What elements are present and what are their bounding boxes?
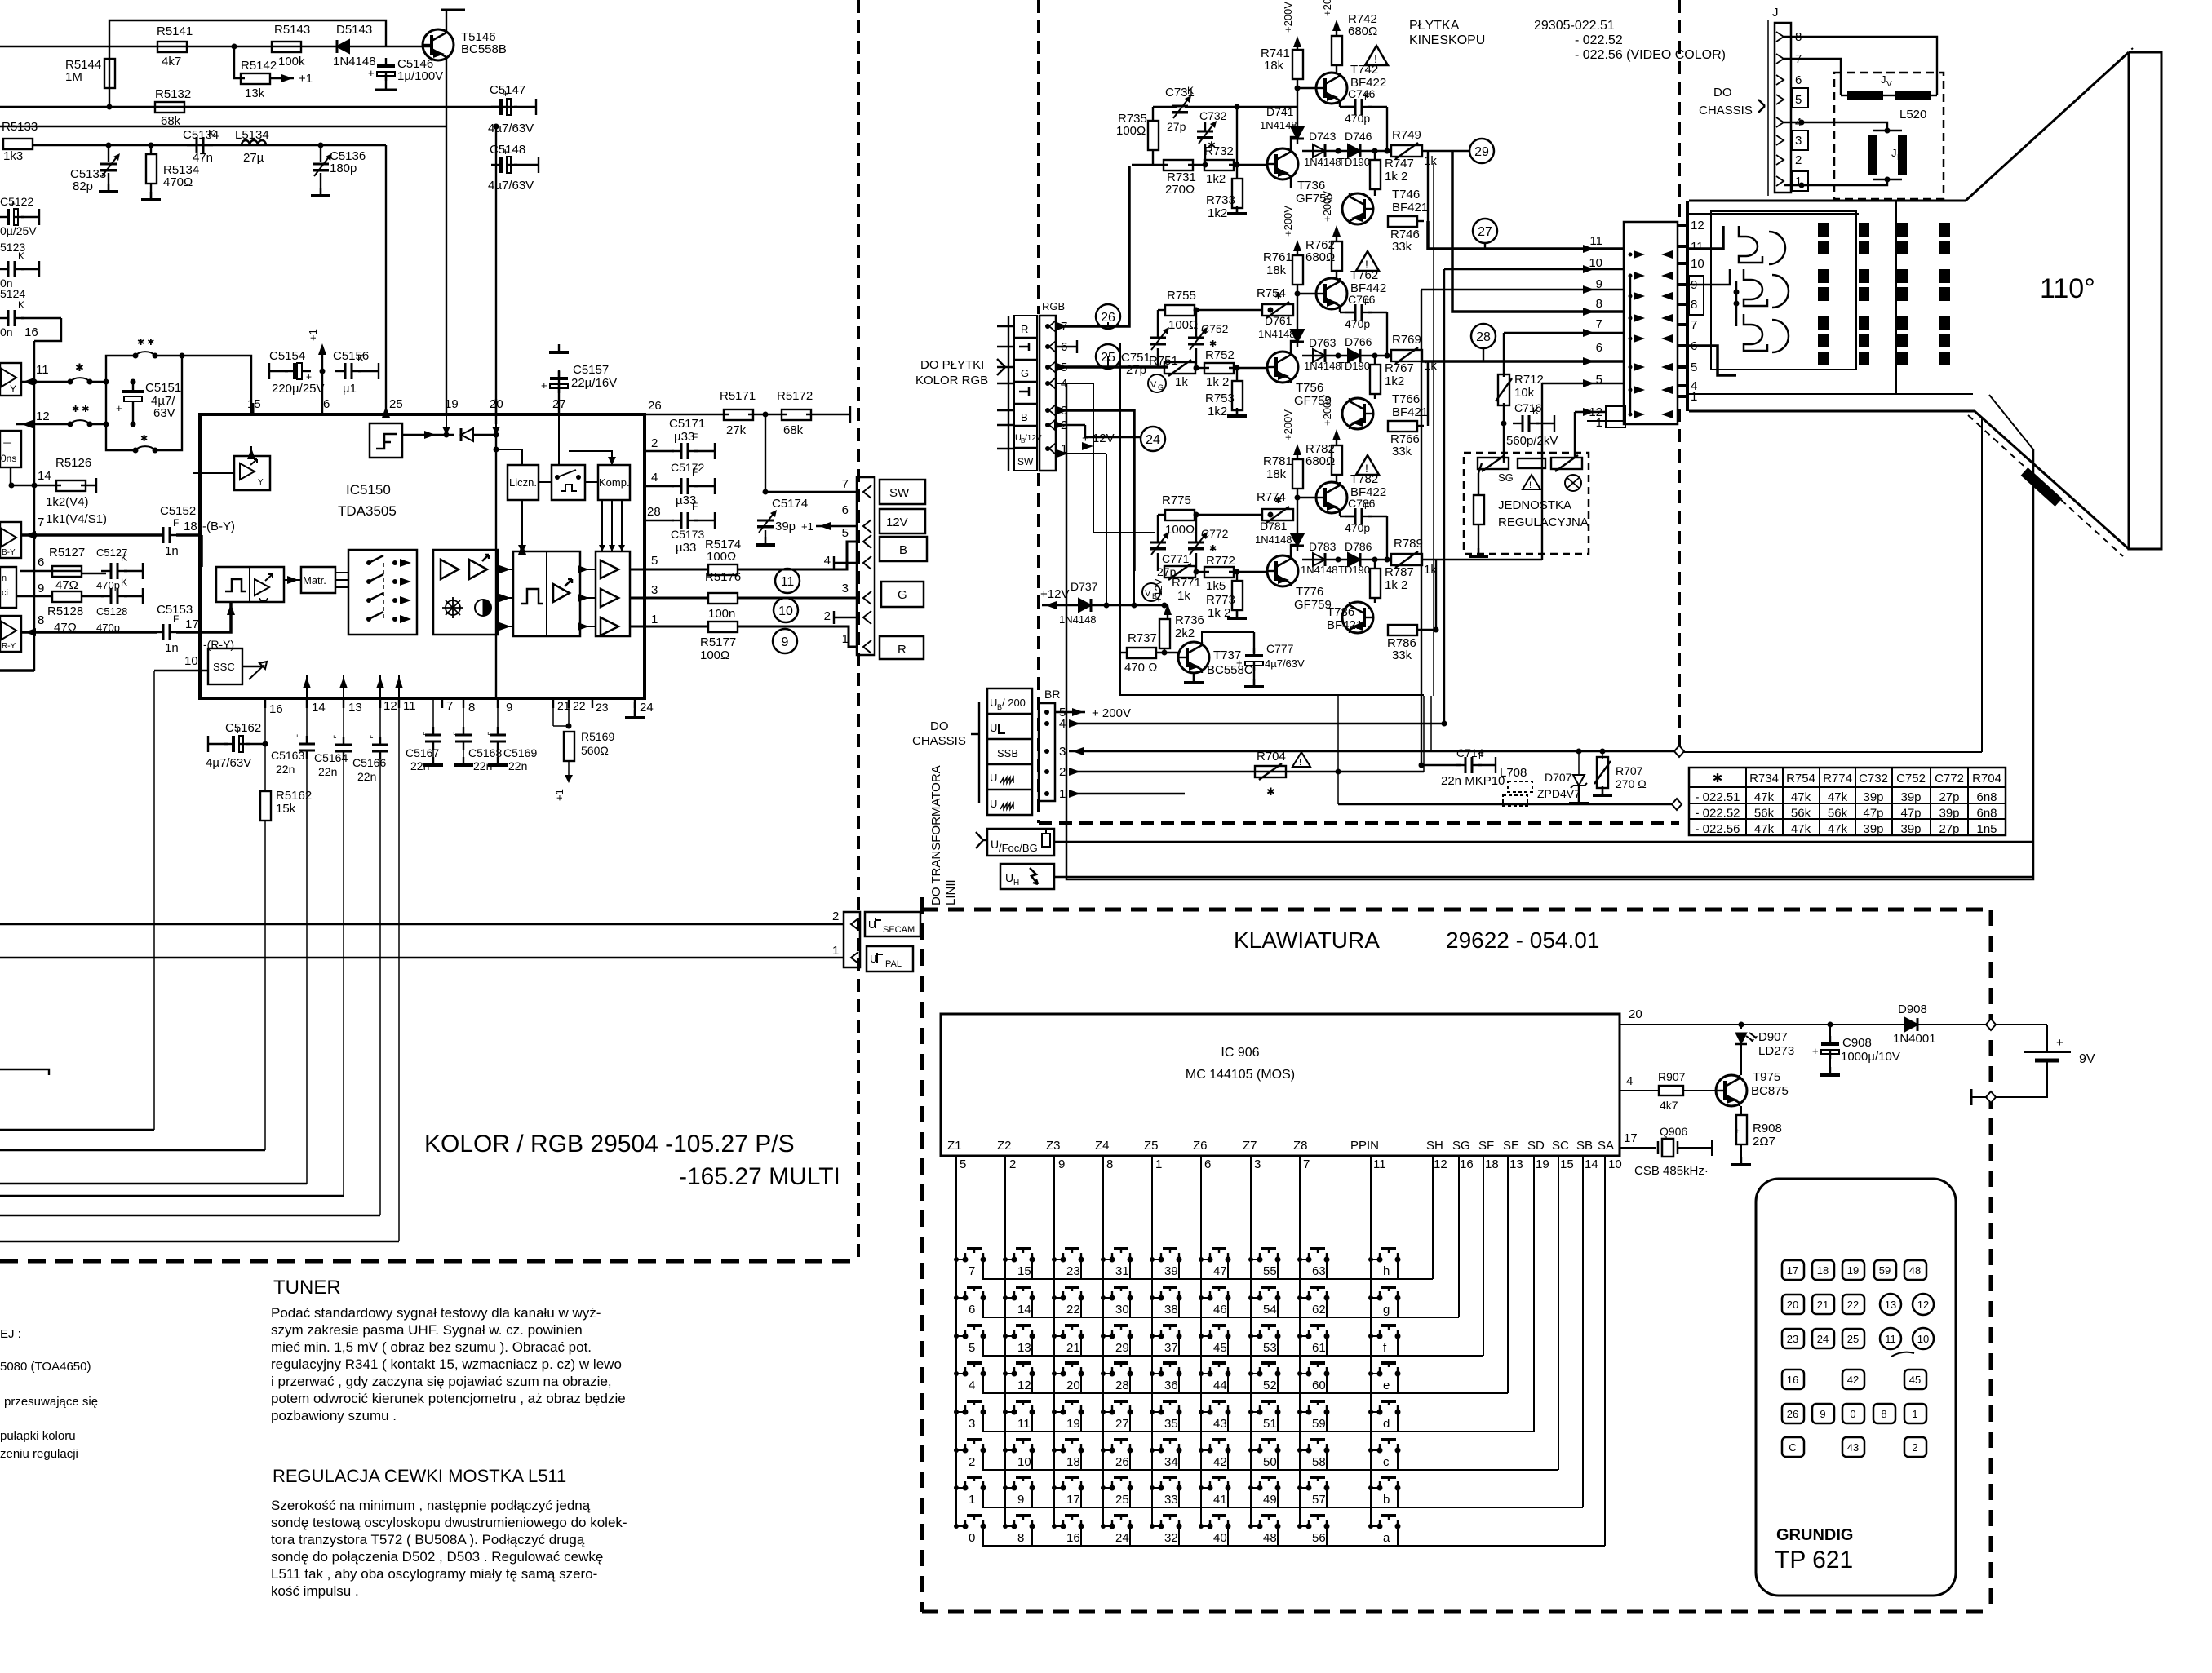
- remote squiggle: [1891, 1352, 1914, 1357]
- svg-text:+ 200V: + 200V: [1092, 706, 1131, 720]
- svg-text:44: 44: [1213, 1379, 1227, 1392]
- switch key h: [1377, 1257, 1383, 1263]
- switch key 7: [963, 1257, 969, 1263]
- resistor R5141: [157, 42, 187, 52]
- svg-text:LINII: LINII: [944, 879, 958, 905]
- svg-text:19: 19: [1066, 1417, 1080, 1431]
- svg-text:1N4148: 1N4148: [1260, 119, 1297, 131]
- wire BR2: [1069, 771, 1424, 772]
- switch key 46: [1208, 1295, 1213, 1301]
- svg-text:22n: 22n: [410, 759, 429, 772]
- capacitor C5168: [463, 698, 464, 732]
- switch key 51: [1257, 1410, 1263, 1415]
- capacitor C908: [1828, 1022, 1833, 1028]
- switch key 56: [1306, 1524, 1312, 1529]
- wire blue channel links: [1133, 571, 1135, 605]
- PPIN column wire: [1370, 1156, 1372, 1527]
- capacitor C5133 trimmer: [108, 145, 109, 162]
- svg-text:680Ω: 680Ω: [1305, 454, 1335, 468]
- svg-text:L708: L708: [1500, 766, 1527, 780]
- svg-text:⌞: ⌞: [423, 728, 427, 737]
- svg-text:Z8: Z8: [1293, 1139, 1308, 1153]
- svg-text:U: U: [991, 838, 999, 851]
- svg-text:D746: D746: [1345, 130, 1372, 143]
- switch key 63: [1306, 1257, 1312, 1263]
- svg-text:SC: SC: [1552, 1139, 1569, 1153]
- svg-text:30: 30: [1115, 1303, 1129, 1317]
- switch key 20: [1061, 1371, 1066, 1377]
- svg-text:+12V: +12V: [1040, 587, 1069, 601]
- svg-text:10: 10: [1589, 256, 1602, 270]
- svg-text:R752: R752: [1205, 348, 1235, 362]
- wire pin1 stub: [1056, 453, 1106, 454]
- svg-text:8: 8: [468, 701, 475, 715]
- wire pin19 stub down: [446, 414, 447, 435]
- warning triangle red: [1365, 46, 1388, 65]
- switch key 34: [1159, 1448, 1164, 1454]
- svg-text:1k5: 1k5: [1206, 579, 1226, 593]
- svg-text:J: J: [1772, 6, 1779, 20]
- resistor R5127: [52, 566, 82, 577]
- svg-text:20: 20: [1066, 1379, 1080, 1392]
- svg-text:T782: T782: [1350, 472, 1378, 486]
- svg-text:2: 2: [969, 1455, 975, 1469]
- svg-text:100Ω: 100Ω: [1168, 318, 1198, 332]
- svg-text:6: 6: [969, 1303, 975, 1317]
- svg-text:EJ :: EJ :: [0, 1327, 21, 1341]
- remote key 45: [1904, 1370, 1926, 1389]
- svg-text:R774: R774: [1823, 772, 1852, 786]
- block Liczn: [508, 465, 539, 500]
- diode D783: [1313, 553, 1325, 566]
- wire lower switch path: [106, 424, 135, 450]
- wire Liczn link1: [539, 481, 552, 483]
- svg-text:Liczn.: Liczn.: [509, 476, 537, 489]
- CRT funnel neck top: [1689, 200, 1966, 202]
- wire blue base: [1196, 571, 1209, 573]
- switch key 24: [1110, 1524, 1115, 1529]
- capacitor C5151: [105, 382, 107, 424]
- svg-text:43: 43: [1847, 1441, 1859, 1454]
- svg-text:12: 12: [1017, 1379, 1031, 1392]
- svg-text:54: 54: [1263, 1303, 1277, 1317]
- svg-text:47: 47: [1213, 1264, 1227, 1278]
- svg-text:12: 12: [36, 409, 50, 423]
- svg-text:D783: D783: [1309, 540, 1337, 553]
- wire red collector net: [1386, 107, 1388, 151]
- svg-text:11: 11: [403, 699, 416, 713]
- svg-text:2: 2: [651, 436, 658, 450]
- svg-text:1N4148: 1N4148: [1304, 156, 1341, 168]
- wire bus pin8 thick: [1452, 151, 1624, 312]
- switch key 31: [1110, 1257, 1115, 1263]
- capacitor C732 star: [1204, 122, 1206, 131]
- LED D907: [1740, 1025, 1742, 1029]
- svg-text:28: 28: [647, 505, 661, 519]
- label box B: [880, 537, 927, 561]
- resistor R755: [1165, 305, 1195, 316]
- CRT funnel top diagonal: [1966, 52, 2129, 201]
- svg-text:+: +: [2056, 1036, 2063, 1050]
- wire pin11 down: [398, 698, 400, 1241]
- svg-text:16: 16: [1460, 1157, 1474, 1171]
- remote key 11 round: [1880, 1328, 1901, 1349]
- svg-text:8: 8: [1106, 1157, 1113, 1171]
- svg-text:1k2: 1k2: [1206, 172, 1226, 186]
- wire bus pin1 crt: [1587, 420, 1624, 422]
- JEDNOSTKA dashed box: [1464, 453, 1589, 554]
- remote key 13 round: [1880, 1294, 1901, 1315]
- svg-text:5: 5: [1596, 373, 1602, 387]
- svg-text:1N4148: 1N4148: [1258, 328, 1296, 340]
- remote key 22: [1842, 1295, 1864, 1314]
- svg-text:1N4148: 1N4148: [1304, 360, 1341, 372]
- wire upper to pin15: [182, 356, 251, 414]
- svg-text:3: 3: [651, 583, 658, 597]
- svg-text:21: 21: [1066, 1341, 1080, 1355]
- svg-text:sondę do połączenia D50: sondę do połączenia D502 , D503 . Regulo…: [271, 1549, 603, 1565]
- svg-text:13: 13: [1885, 1299, 1896, 1311]
- yoke inner vertical: [1895, 201, 1897, 394]
- svg-text:C5169: C5169: [503, 746, 537, 759]
- switch key 48: [1257, 1524, 1263, 1529]
- svg-text:22n: 22n: [276, 763, 295, 776]
- svg-text:D763: D763: [1309, 336, 1337, 349]
- svg-text:SSC: SSC: [213, 661, 235, 673]
- resistor R769 fusible: [1391, 350, 1422, 361]
- diamond d908 crossing: [1986, 1019, 1996, 1030]
- svg-text:G: G: [1021, 367, 1029, 379]
- block pulse amp b5: [513, 551, 580, 636]
- resistor R707: [1602, 751, 1603, 759]
- svg-text:4: 4: [824, 554, 831, 568]
- resistor R5172: [782, 409, 811, 420]
- svg-text:SSB: SSB: [997, 747, 1018, 759]
- resistor R704: [1255, 766, 1286, 777]
- svg-text:18: 18: [1817, 1264, 1829, 1277]
- svg-text:zeniu regulacji: zeniu regulacji: [0, 1447, 78, 1461]
- svg-text:11: 11: [1589, 234, 1602, 248]
- svg-text:38: 38: [1164, 1303, 1178, 1317]
- svg-text:50: 50: [1263, 1455, 1277, 1469]
- svg-text:110°: 110°: [2040, 273, 2095, 304]
- svg-text:47k: 47k: [1791, 822, 1811, 836]
- svg-text:C752: C752: [1201, 322, 1229, 335]
- svg-text:8: 8: [1596, 297, 1602, 311]
- svg-text:✱ ✱: ✱ ✱: [72, 405, 90, 414]
- svg-text:TD190: TD190: [1338, 156, 1370, 168]
- capacitor C5128: [101, 595, 111, 597]
- svg-text:R5133: R5133: [2, 120, 38, 134]
- resistor R5174: [708, 564, 738, 575]
- dashed border klawiatura: [922, 908, 1991, 912]
- wire pin25 from C5136: [385, 412, 387, 414]
- svg-text:⌞: ⌞: [296, 730, 300, 739]
- label box UH lightning: [1000, 864, 1054, 889]
- capacitor C5156: [335, 370, 345, 372]
- svg-text:680Ω: 680Ω: [1348, 24, 1377, 38]
- svg-text:R5128: R5128: [47, 604, 83, 618]
- wire R737 left vert: [1120, 652, 1127, 653]
- svg-text:mieć min. 1,5 mV ( obraz: mieć min. 1,5 mV ( obraz bez szumu ). Ob…: [271, 1339, 592, 1355]
- svg-text:32: 32: [1164, 1531, 1178, 1545]
- svg-text:48: 48: [1909, 1264, 1921, 1277]
- remote key 17: [1782, 1260, 1804, 1280]
- wire block pin16: [34, 318, 61, 341]
- svg-text:sondę testową oscyloskopu: sondę testową oscyloskopu dwustrumieniow…: [271, 1515, 627, 1530]
- wire blue collector net: [1386, 516, 1388, 560]
- svg-text:D907: D907: [1758, 1030, 1788, 1044]
- svg-text:61: 61: [1312, 1341, 1326, 1355]
- circle VB: [1142, 583, 1160, 601]
- arrow +200V red: [1293, 36, 1301, 47]
- svg-text:4: 4: [1626, 1074, 1633, 1088]
- svg-text:4: 4: [651, 471, 658, 485]
- switch key 6: [963, 1295, 969, 1301]
- wire green long out thick: [1422, 360, 1624, 363]
- remote key 9: [1812, 1404, 1834, 1423]
- svg-text:G: G: [1158, 383, 1164, 392]
- svg-text:5080 (TOA4650): 5080 (TOA4650): [0, 1360, 91, 1374]
- svg-text:18k: 18k: [1266, 263, 1287, 277]
- switch key 58: [1306, 1448, 1312, 1454]
- svg-text:pozbawiony szumu .: pozbawiony szumu .: [271, 1408, 397, 1423]
- capacitor C5157: [558, 371, 560, 414]
- svg-text:15: 15: [1560, 1157, 1574, 1171]
- svg-text:1k2: 1k2: [1208, 405, 1227, 418]
- switch key 55: [1257, 1257, 1263, 1263]
- svg-text:D766: D766: [1345, 335, 1372, 348]
- svg-text:F: F: [692, 501, 698, 512]
- svg-text:BF421: BF421: [1327, 618, 1363, 632]
- svg-text:24: 24: [1817, 1333, 1829, 1345]
- wire pin27 to switch: [558, 414, 560, 465]
- wire pin16 down: [264, 702, 266, 791]
- block pulse matrix b1: [216, 567, 284, 602]
- svg-text:T776: T776: [1296, 585, 1323, 599]
- potentiometer mid: [1518, 458, 1545, 468]
- svg-text:1N4001: 1N4001: [1893, 1032, 1936, 1046]
- resistor R736: [1159, 619, 1170, 648]
- wire x247 down to b1: [200, 535, 203, 567]
- svg-text:U: U: [870, 953, 877, 965]
- svg-text:12: 12: [1434, 1157, 1447, 1171]
- svg-text:R753: R753: [1205, 392, 1235, 405]
- svg-text:K: K: [18, 250, 24, 262]
- switch key 12: [1012, 1371, 1017, 1377]
- svg-text:R704: R704: [1972, 772, 2001, 786]
- switch key 1: [963, 1485, 969, 1491]
- svg-text:+200V: +200V: [1321, 395, 1333, 426]
- remote key 10 round: [1913, 1328, 1934, 1349]
- svg-text:DO TRANSFORMATORA: DO TRANSFORMATORA: [929, 765, 943, 905]
- resistor R908: [1740, 1106, 1742, 1116]
- diamond crossing y986: [1672, 799, 1682, 810]
- connector BR strip: [1039, 703, 1055, 801]
- svg-text:12: 12: [383, 699, 397, 713]
- svg-text:R769: R769: [1392, 333, 1421, 347]
- svg-text:36: 36: [1164, 1379, 1178, 1392]
- svg-text:R907: R907: [1658, 1070, 1686, 1083]
- svg-text:8: 8: [1881, 1408, 1886, 1420]
- svg-text:11: 11: [1885, 1333, 1896, 1345]
- svg-text:1N4148: 1N4148: [1301, 564, 1338, 576]
- wire green base: [1196, 367, 1209, 369]
- dashed border KOLOR RGB bottom: [0, 1259, 858, 1264]
- svg-text:470p: 470p: [1345, 521, 1370, 534]
- svg-text:R: R: [1021, 323, 1028, 335]
- switch key 30: [1110, 1295, 1115, 1301]
- capacitor C5174 trimmer: [757, 525, 774, 527]
- switch key 61: [1306, 1334, 1312, 1339]
- svg-text:7: 7: [1691, 318, 1697, 332]
- svg-text:+1: +1: [307, 329, 319, 341]
- svg-text:3: 3: [1254, 1157, 1261, 1171]
- svg-text:4k7: 4k7: [1660, 1099, 1678, 1112]
- remote key 42: [1842, 1370, 1864, 1389]
- svg-text:45: 45: [1909, 1374, 1921, 1386]
- resistor R773: [1232, 581, 1243, 610]
- CRT funnel bottom diagonal: [1975, 411, 2129, 549]
- svg-text:63: 63: [1312, 1264, 1326, 1278]
- battery ground bar: [1970, 1089, 1973, 1105]
- svg-text:37: 37: [1164, 1341, 1178, 1355]
- wire bus pin7: [1504, 332, 1624, 334]
- wire pin2 +12V: [1056, 424, 1085, 426]
- svg-text:G: G: [898, 588, 907, 602]
- svg-text:51: 51: [1263, 1417, 1277, 1431]
- wire Komp top: [569, 451, 612, 465]
- block SSC: [208, 648, 242, 684]
- svg-text:ci: ci: [2, 588, 8, 598]
- svg-text:SF: SF: [1478, 1139, 1494, 1153]
- capacitor C714: [1456, 764, 1465, 766]
- switch key 18: [1061, 1448, 1066, 1454]
- IC906 box: [941, 1014, 1620, 1156]
- svg-text:B: B: [1021, 411, 1028, 423]
- remote key 8: [1873, 1404, 1895, 1423]
- capacitor C771 trimmer: [1150, 547, 1166, 549]
- svg-text:+200V: +200V: [1282, 2, 1294, 33]
- svg-text:R732: R732: [1204, 144, 1234, 158]
- svg-text:-165.27 MULTI: -165.27 MULTI: [679, 1163, 840, 1190]
- svg-text:49: 49: [1263, 1493, 1277, 1507]
- diode D746: [1348, 144, 1360, 157]
- svg-text:D781: D781: [1260, 520, 1288, 533]
- svg-text:/12V: /12V: [1025, 434, 1042, 443]
- svg-text:2: 2: [832, 910, 839, 923]
- svg-text:56: 56: [1312, 1531, 1326, 1545]
- svg-text:4: 4: [1059, 717, 1066, 731]
- svg-text:T786: T786: [1327, 605, 1354, 619]
- capacitor C746: [1339, 103, 1341, 107]
- wire nested L6: [0, 1241, 399, 1242]
- resistor R751 var: [1164, 362, 1195, 374]
- svg-text:C5154: C5154: [269, 349, 305, 363]
- wire green collector net: [1386, 312, 1388, 356]
- wire left leads rgb connector: [1008, 316, 1009, 471]
- svg-text:42: 42: [1847, 1374, 1859, 1386]
- block ci: [0, 567, 16, 608]
- svg-text:7: 7: [1596, 317, 1602, 331]
- mating connector vert link: [1629, 276, 1631, 414]
- resistor R5177: [708, 622, 738, 632]
- transistor T782: [1316, 482, 1347, 513]
- switch key 13: [1012, 1334, 1017, 1339]
- svg-text:13: 13: [1017, 1341, 1031, 1355]
- svg-text:R5143: R5143: [274, 23, 310, 37]
- svg-text:+ 12V: + 12V: [1082, 432, 1115, 445]
- svg-text:60: 60: [1312, 1379, 1326, 1392]
- amp block B-Y: [0, 522, 21, 558]
- svg-text:5124: 5124: [0, 287, 25, 300]
- svg-text:T756: T756: [1296, 381, 1323, 395]
- svg-text:26: 26: [648, 399, 662, 413]
- arrow +1 from R5142: [270, 77, 294, 79]
- svg-text:C777: C777: [1266, 642, 1294, 655]
- electron gun 1: [1739, 226, 1785, 264]
- capacitor C5147: [491, 106, 501, 108]
- wire Liczn top: [496, 449, 522, 465]
- svg-text:29: 29: [1474, 145, 1489, 159]
- wire R712 to SG: [1503, 423, 1505, 457]
- svg-text:DO: DO: [1713, 86, 1732, 100]
- wire green channel input: [1056, 365, 1168, 369]
- svg-text:22: 22: [1066, 1303, 1080, 1317]
- svg-text:47Ω: 47Ω: [55, 578, 78, 592]
- svg-text:⌞: ⌞: [370, 731, 374, 740]
- circle VG: [1148, 374, 1166, 392]
- resistor R766: [1388, 421, 1417, 432]
- switch key 53: [1257, 1334, 1263, 1339]
- capacitor C5164: [343, 698, 344, 742]
- svg-text:B: B: [899, 543, 907, 557]
- switch key 38: [1159, 1295, 1164, 1301]
- resistor R747: [1370, 160, 1381, 189]
- resistor R5128: [52, 591, 82, 602]
- svg-text:1: 1: [1596, 416, 1602, 430]
- svg-text:regulacyjny R341 ( kontakt: regulacyjny R341 ( kontakt 15, wzmacniac…: [271, 1357, 622, 1372]
- svg-text:R704: R704: [1257, 750, 1286, 763]
- capacitor C5134: [187, 144, 197, 146]
- switch key 0: [963, 1524, 969, 1529]
- resistor R753: [1232, 381, 1243, 410]
- connector strip kolor: [857, 477, 875, 655]
- svg-text:C772: C772: [1201, 527, 1229, 540]
- capacitor C5136 trimmer: [320, 145, 321, 162]
- svg-text:K: K: [357, 352, 364, 364]
- svg-text:63V: 63V: [153, 406, 175, 420]
- svg-text:kość impulsu .: kość impulsu .: [271, 1583, 359, 1599]
- svg-text:+: +: [10, 198, 16, 210]
- svg-text:1M: 1M: [65, 70, 82, 84]
- label boxes kolor rgb column: [1014, 316, 1037, 471]
- switch key 25: [1110, 1485, 1115, 1491]
- resistor R761: [1292, 255, 1303, 285]
- wire nested L3: [0, 1183, 307, 1184]
- svg-text:17: 17: [1066, 1493, 1080, 1507]
- svg-text:100n: 100n: [708, 607, 735, 621]
- svg-text:1k 2: 1k 2: [1208, 606, 1230, 620]
- svg-text:R755: R755: [1167, 289, 1196, 303]
- mating connector box: [1624, 222, 1678, 424]
- svg-text:K: K: [18, 299, 24, 311]
- svg-text:15: 15: [1017, 1264, 1031, 1278]
- svg-text:57: 57: [1312, 1493, 1326, 1507]
- CRT funnel bottom diagonal dashed: [1968, 415, 2123, 556]
- svg-text:przesuwające się: przesuwające się: [4, 1395, 98, 1409]
- svg-text:9V: 9V: [2079, 1052, 2095, 1066]
